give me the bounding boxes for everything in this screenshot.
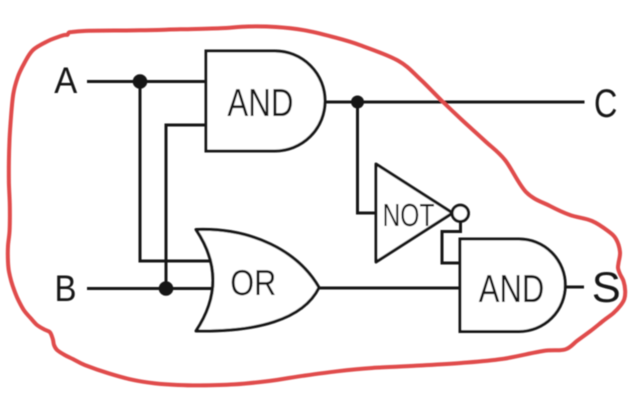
svg-text:C: C [594,82,617,126]
svg-text:B: B [55,268,77,309]
svg-text:A: A [54,60,77,101]
svg-text:S: S [592,264,621,312]
svg-text:AND: AND [227,82,293,125]
svg-text:NOT: NOT [383,197,435,233]
svg-text:AND: AND [479,268,545,311]
svg-text:OR: OR [230,262,276,303]
